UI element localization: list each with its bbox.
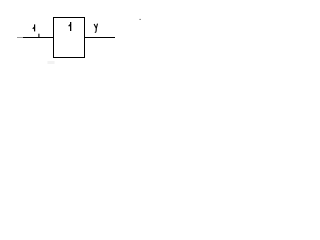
output net label y: [94, 24, 97, 33]
artifact speckle below box: [48, 61, 55, 64]
input label tick: [38, 34, 40, 38]
input wire: [23, 37, 54, 39]
gate function label 1: [68, 22, 71, 31]
buffer gate U1 (IEC rectangle body): [54, 18, 85, 58]
stray dot: [140, 19, 141, 20]
input net label 1: [32, 24, 35, 31]
input wire (faint left segment): [17, 37, 23, 39]
output wire: [85, 37, 115, 39]
